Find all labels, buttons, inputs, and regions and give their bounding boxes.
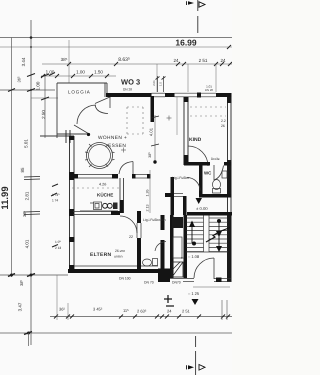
svg-text:11.99: 11.99 xyxy=(0,186,11,209)
left vertical chain outer xyxy=(11,38,13,278)
svg-text:KIND: KIND xyxy=(189,137,202,143)
svg-text:1.50: 1.50 xyxy=(94,70,103,75)
loggia door arcs xyxy=(74,97,111,135)
table circle inner xyxy=(89,145,111,167)
left dim line over loggia xyxy=(0,89,55,91)
svg-text:WC: WC xyxy=(204,171,212,176)
north wall opening ticks xyxy=(152,76,166,97)
shaft middle rect xyxy=(173,237,182,258)
west wall of building xyxy=(69,136,75,272)
svg-text:4.01: 4.01 xyxy=(25,239,30,248)
svg-text:99: 99 xyxy=(181,256,185,260)
north window double line xyxy=(175,93,217,97)
svg-text:2.13: 2.13 xyxy=(146,205,150,212)
wc south wall xyxy=(199,194,232,198)
svg-text:2 51: 2 51 xyxy=(182,309,191,314)
small cross marks xyxy=(121,116,172,153)
junction marks bottom left of stairs xyxy=(164,295,174,306)
south wall stair dark cap xyxy=(216,278,222,283)
svg-text:24: 24 xyxy=(167,309,172,314)
bottom dimension line xyxy=(50,316,232,318)
svg-text:3.47: 3.47 xyxy=(18,302,23,311)
svg-text:26: 26 xyxy=(221,124,225,128)
svg-text:1.26: 1.26 xyxy=(146,190,150,197)
svg-text:16.99: 16.99 xyxy=(175,38,197,48)
stair stringer lines xyxy=(204,216,210,253)
table ticks xyxy=(85,144,115,167)
sheet line bottom full width xyxy=(0,332,232,334)
stair up arrow xyxy=(189,221,196,246)
svg-text:2.81: 2.81 xyxy=(25,191,30,200)
loggia door jamb xyxy=(109,97,111,108)
svg-text:KÜCHE: KÜCHE xyxy=(97,193,113,198)
dashed rect wohnen xyxy=(127,107,143,134)
kueche east wall xyxy=(120,178,124,213)
extension line from dim to loggia xyxy=(68,40,70,83)
kueche north wall xyxy=(69,174,151,179)
extension line kind wall xyxy=(176,97,178,135)
svg-text:± 0.00: ± 0.00 xyxy=(196,206,208,211)
counter edge xyxy=(80,210,118,212)
short left line xyxy=(31,97,58,99)
stairwell north wall xyxy=(187,212,232,216)
left vertical chain inner xyxy=(44,74,46,138)
north wall thick segment left xyxy=(106,93,152,97)
junction dots xyxy=(30,36,33,39)
svg-text:4.26: 4.26 xyxy=(99,183,106,187)
shaft east wall xyxy=(184,215,188,278)
south wall step xyxy=(158,269,170,283)
window mullion xyxy=(197,93,201,98)
top dim row 2 line xyxy=(41,75,116,77)
svg-text:2.50: 2.50 xyxy=(41,110,46,119)
ticks top dims xyxy=(41,62,232,78)
wc lobby wall horizontal xyxy=(165,193,183,197)
wc north wall xyxy=(184,162,210,166)
north wall thick segment right xyxy=(216,93,232,97)
svg-text:1.00: 1.00 xyxy=(36,81,41,90)
south wall stair side thin lines xyxy=(170,279,231,282)
wc door xyxy=(214,165,224,180)
stub below bottom line xyxy=(28,333,30,346)
table circle outer xyxy=(87,143,113,169)
svg-text:2 13: 2 13 xyxy=(55,246,61,250)
landing door arc xyxy=(187,178,200,191)
svg-text:ELTERN: ELTERN xyxy=(90,252,112,258)
svg-text:1.5: 1.5 xyxy=(159,82,163,86)
outside step line xyxy=(193,286,230,288)
bath west wall xyxy=(161,215,165,269)
svg-text:Dro3e: Dro3e xyxy=(211,157,220,161)
svg-text:DN 70: DN 70 xyxy=(144,281,154,285)
svg-text:22: 22 xyxy=(129,235,133,239)
east outer wall xyxy=(227,97,232,282)
bad sink oval xyxy=(143,259,158,267)
stair down arrows xyxy=(216,219,222,252)
wohnen-hall door arc xyxy=(119,162,133,175)
left vertical chain main xyxy=(30,20,32,345)
shaft top block xyxy=(172,217,183,228)
svg-text:– 1 25: – 1 25 xyxy=(188,291,200,296)
stair break line xyxy=(206,228,230,243)
wc west wall xyxy=(199,165,203,197)
section marker A bottom xyxy=(187,336,206,375)
bottom extension lines xyxy=(221,300,223,320)
svg-text:1.00: 1.00 xyxy=(76,70,85,75)
eltern east wall xyxy=(137,215,141,269)
svg-text:26.von: 26.von xyxy=(115,249,125,253)
svg-text:4.01: 4.01 xyxy=(149,127,154,136)
sink xyxy=(90,202,102,210)
svg-text:1 74: 1 74 xyxy=(52,199,58,203)
svg-text:24: 24 xyxy=(173,58,179,63)
svg-text:DN 20: DN 20 xyxy=(205,88,213,92)
eltern door arc xyxy=(120,216,137,233)
svg-text:Ltg.i.Fußbo: Ltg.i.Fußbo xyxy=(172,176,189,180)
bath door arc xyxy=(155,242,166,252)
wc sink xyxy=(222,171,227,178)
section marker A top xyxy=(187,0,206,33)
kind door arc xyxy=(188,146,208,166)
svg-text:WOHNEN +: WOHNEN + xyxy=(98,135,127,141)
shaft west wall xyxy=(170,215,174,278)
svg-text:DN 28: DN 28 xyxy=(123,88,132,92)
top dim row 1 line xyxy=(42,63,232,65)
wc lobby wall vertical xyxy=(171,177,175,215)
bottom dim ticks xyxy=(54,315,230,319)
svg-text:DN 100: DN 100 xyxy=(119,277,131,281)
svg-text:DN70: DN70 xyxy=(172,281,181,285)
kind dashed ceiling lines xyxy=(190,107,226,116)
dimension line 16.99 xyxy=(0,46,232,48)
svg-text:WO 3: WO 3 xyxy=(121,78,140,87)
svg-text:ESSEN: ESSEN xyxy=(108,143,126,149)
sheet line top full width xyxy=(0,37,232,39)
left bottom line xyxy=(0,274,68,276)
south wall eltern xyxy=(68,269,160,273)
svg-text:3.44: 3.44 xyxy=(21,57,26,66)
stove xyxy=(103,203,118,210)
level triangle -1.25 xyxy=(192,299,199,305)
wall stub wohnen right xyxy=(151,96,155,122)
stair bottom edge xyxy=(187,251,228,253)
svg-text:2.2: 2.2 xyxy=(221,119,226,123)
kind west wall xyxy=(184,97,189,165)
kueche dashes xyxy=(72,187,122,189)
LOGGIA outline xyxy=(40,83,107,138)
svg-text:Ltg.i.Fußboden: Ltg.i.Fußboden xyxy=(143,218,166,222)
level marker 0.00 xyxy=(196,198,203,204)
svg-text:85: 85 xyxy=(20,167,25,173)
stairs right flight treads xyxy=(209,218,228,252)
entry door arc xyxy=(194,258,214,279)
stairs left flight treads xyxy=(187,218,204,252)
svg-text:5.01: 5.01 xyxy=(24,139,29,148)
svg-text:LOGGIA: LOGGIA xyxy=(68,90,91,95)
hall ticks xyxy=(151,116,159,146)
svg-text:– 1.08: – 1.08 xyxy=(188,254,200,259)
shaft bottom block xyxy=(172,262,183,277)
stairwell west wall upper xyxy=(183,196,187,215)
hall dim line vertical xyxy=(154,115,156,163)
loggia sill ticks xyxy=(66,130,90,143)
left chain ticks xyxy=(8,73,58,335)
svg-text:2 51: 2 51 xyxy=(199,58,208,63)
north wall thick segment mid xyxy=(165,93,175,97)
svg-text:2.01: 2.01 xyxy=(152,80,156,86)
svg-text:unten: unten xyxy=(114,255,123,259)
eltern north wall xyxy=(73,211,141,215)
toilet xyxy=(213,180,221,194)
